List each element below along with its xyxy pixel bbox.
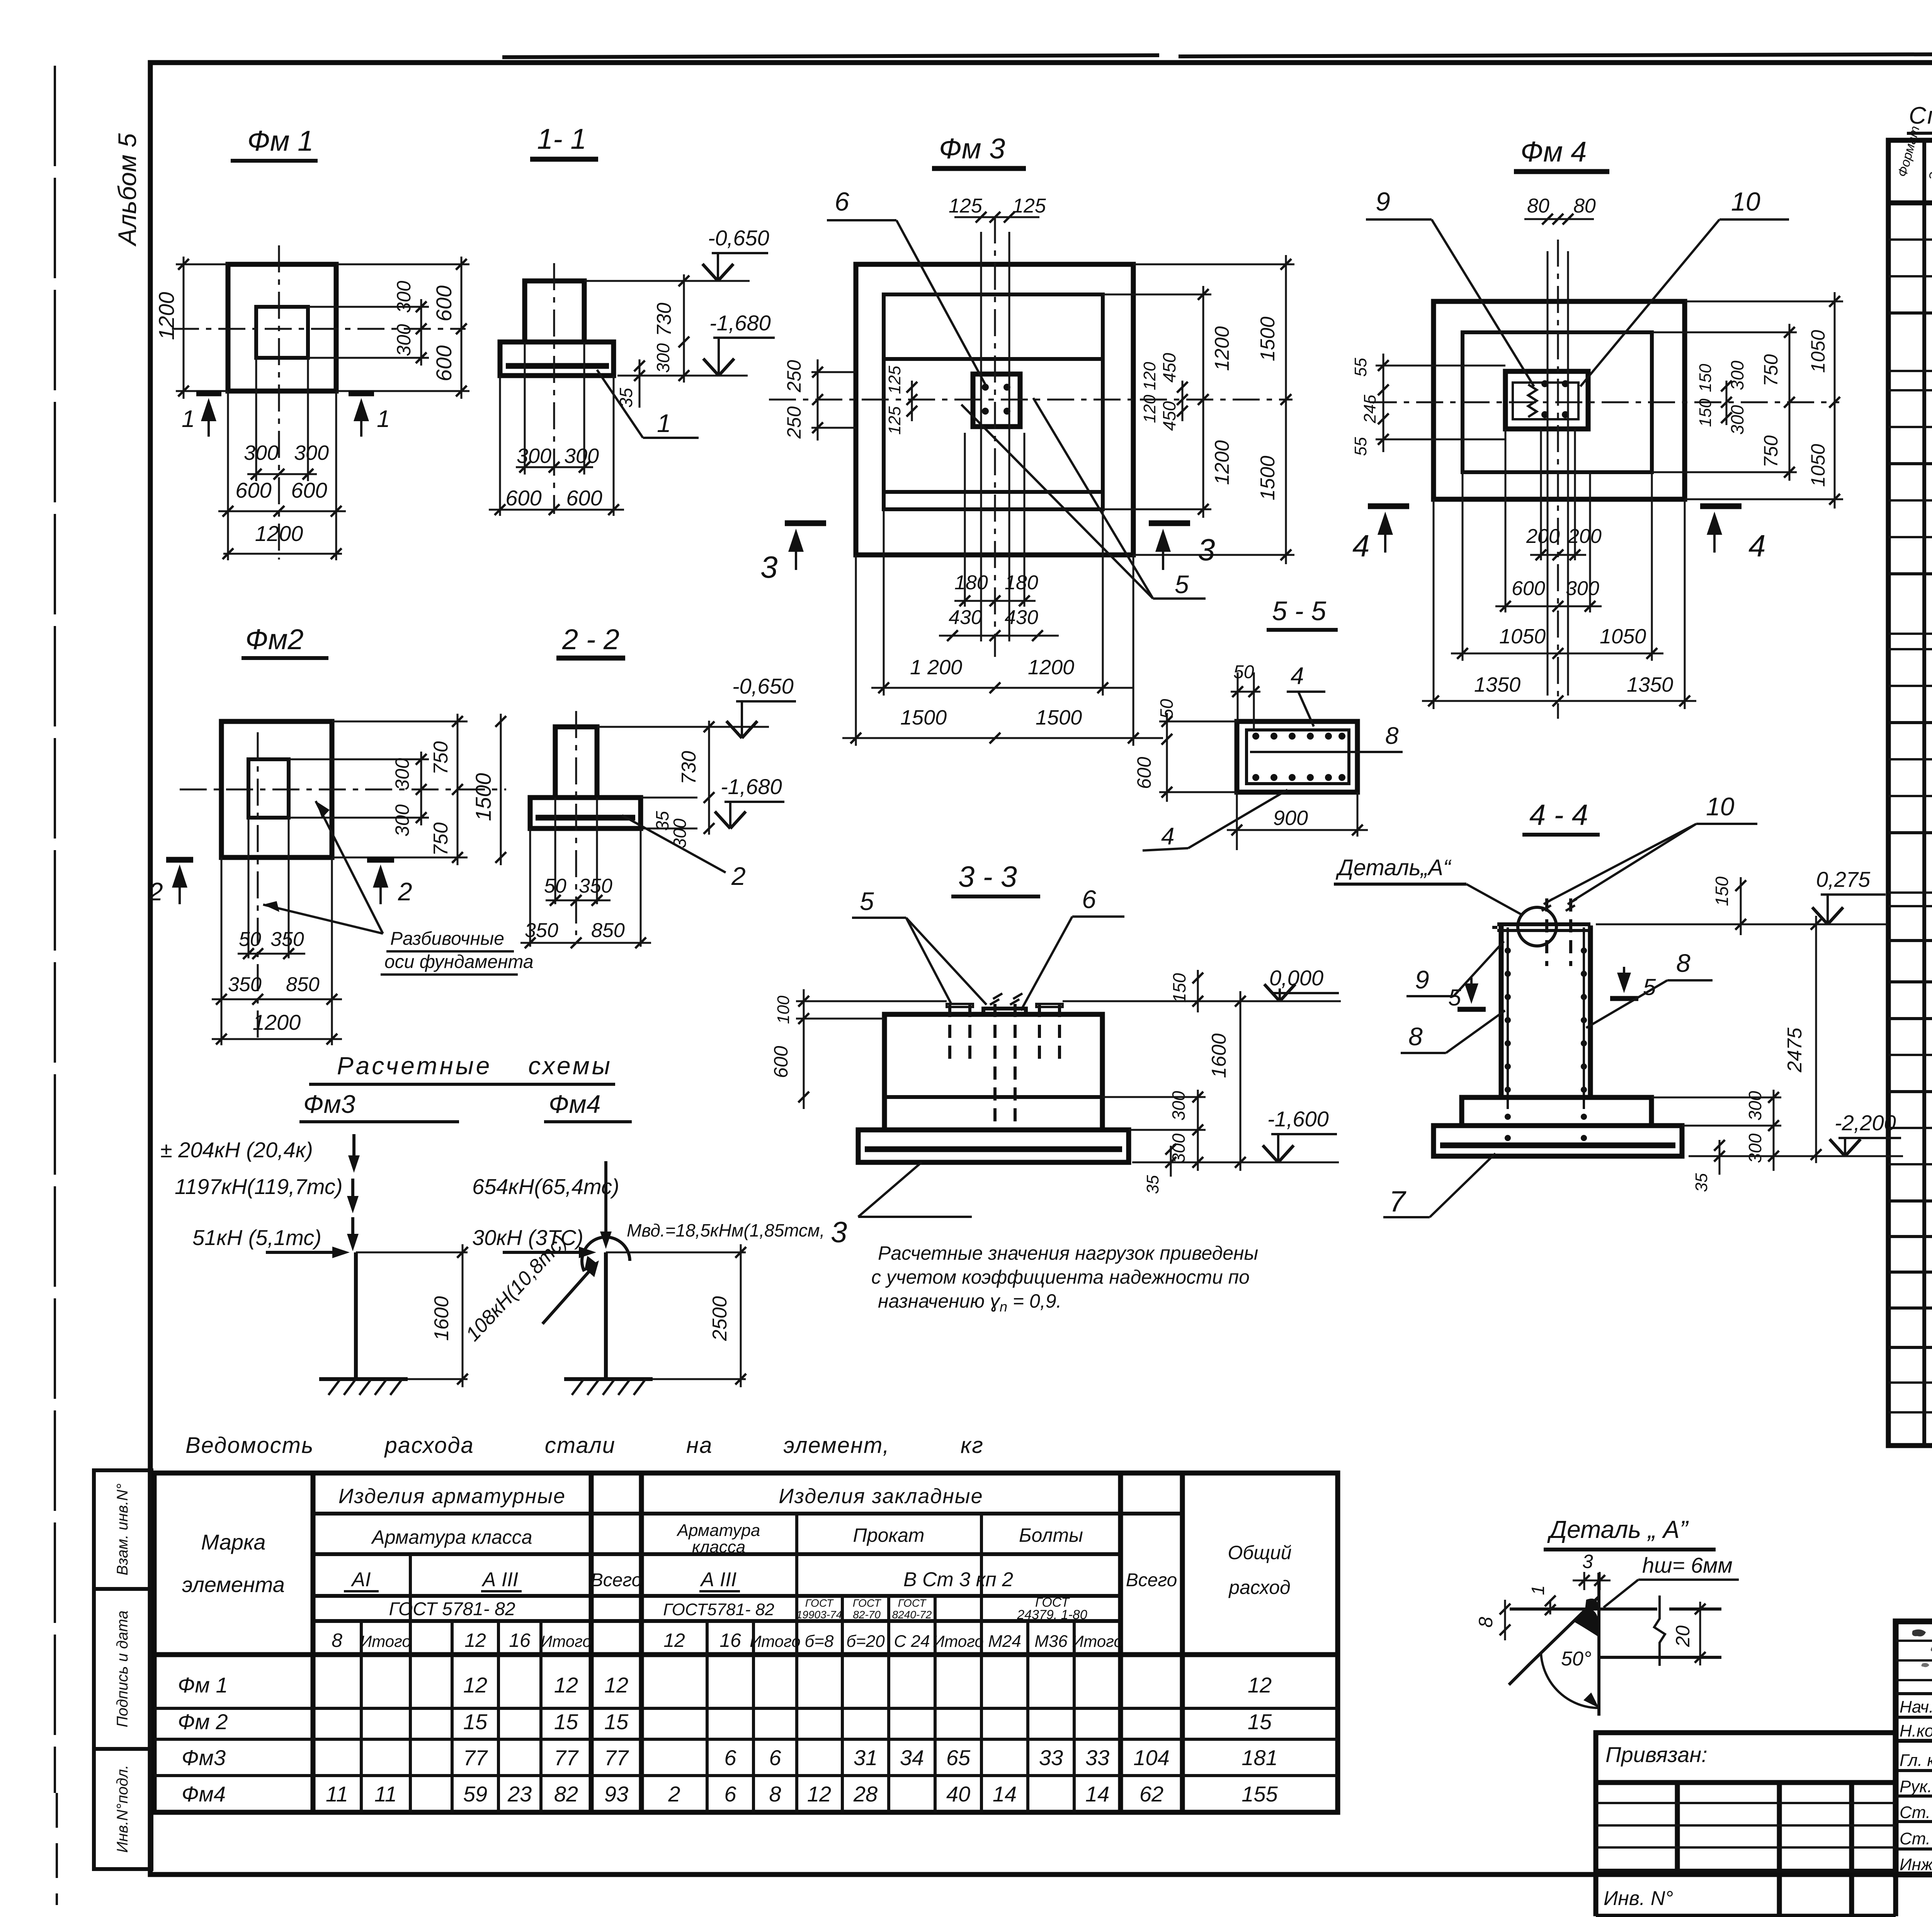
bottom dims 300 300: [524, 342, 526, 475]
svg-text:6: 6: [835, 187, 849, 216]
svg-text:600: 600: [566, 486, 602, 510]
dim 1200 left: [183, 257, 185, 399]
svg-text:Итого: Итого: [360, 1632, 411, 1650]
svg-text:2 - 2: 2 - 2: [562, 623, 619, 655]
dim 300 300 right inner: [308, 306, 429, 308]
svg-text:11: 11: [374, 1782, 397, 1806]
svg-text:14: 14: [993, 1782, 1017, 1806]
ground Фм4: [564, 1377, 653, 1381]
outer footing rect: [1434, 301, 1685, 499]
axis horizontal: [172, 328, 466, 330]
svg-text:3 - 3: 3 - 3: [958, 861, 1017, 893]
svg-text:1500: 1500: [1257, 456, 1279, 500]
svg-text:8: 8: [332, 1630, 342, 1651]
rebar dots right: [1581, 947, 1587, 954]
frame top scan doubling: [502, 55, 1159, 57]
mesh band lines: [884, 357, 1103, 361]
svg-text:1: 1: [377, 406, 390, 432]
svg-text:б=8: б=8: [805, 1632, 834, 1651]
bottom slab: [858, 1130, 1129, 1162]
svg-text:-0,650: -0,650: [708, 226, 769, 250]
svg-text:300: 300: [391, 804, 413, 837]
svg-text:1500: 1500: [1257, 316, 1279, 361]
svg-text:8: 8: [1408, 1022, 1423, 1051]
svg-text:150: 150: [1696, 364, 1715, 392]
note text: [871, 1242, 1258, 1315]
svg-text:Итого: Итого: [750, 1632, 801, 1650]
svg-text:31: 31: [854, 1745, 878, 1770]
svg-text:55: 55: [1351, 358, 1370, 377]
svg-text:77: 77: [554, 1745, 579, 1770]
column Фм4: [604, 1252, 608, 1379]
svg-text:180: 180: [1005, 572, 1038, 594]
slab mesh: [865, 1146, 1122, 1152]
bottom dims 350 850: [529, 828, 531, 947]
steel table grid: [154, 1473, 1338, 1812]
bottom slab: [1434, 1126, 1682, 1156]
svg-text:± 204кН (20,4к): ± 204кН (20,4к): [160, 1138, 313, 1162]
column: [525, 281, 584, 342]
svg-text:0,275: 0,275: [1816, 867, 1871, 891]
leader 2: [622, 815, 726, 873]
section mark 1 right: [349, 391, 374, 396]
svg-text:4: 4: [1161, 823, 1174, 850]
svg-text:4: 4: [1352, 529, 1370, 563]
svg-text:оси фундамента: оси фундамента: [384, 952, 534, 972]
svg-text:50°: 50°: [1561, 1648, 1592, 1670]
svg-text:600: 600: [1512, 577, 1545, 600]
svg-text:93: 93: [604, 1782, 628, 1806]
svg-text:А III: А III: [700, 1568, 736, 1591]
inner verticals: [360, 1621, 363, 1812]
svg-text:300: 300: [391, 758, 413, 790]
left margin boxes: [94, 1470, 151, 1869]
svg-text:19903-74: 19903-74: [796, 1609, 842, 1621]
anchor studs dashed: [950, 1004, 1060, 1126]
svg-text:Расчетные значения нагрузок: Расчетные значения нагрузок приведены: [878, 1242, 1258, 1264]
svg-text:14: 14: [1085, 1782, 1109, 1806]
svg-text:750: 750: [1760, 435, 1782, 468]
svg-text:1200: 1200: [255, 521, 303, 546]
outer footing rect: [856, 264, 1133, 555]
left dim 250 250: [811, 371, 856, 373]
mesh: [536, 815, 635, 821]
svg-text:ГОСТ 5781- 82: ГОСТ 5781- 82: [389, 1599, 515, 1619]
svg-text:750: 750: [430, 741, 452, 775]
svg-text:9: 9: [1376, 187, 1390, 216]
svg-text:16: 16: [509, 1630, 531, 1651]
svg-text:5 - 5: 5 - 5: [1272, 596, 1327, 626]
svg-text:250: 250: [783, 360, 805, 393]
svg-text:1: 1: [657, 409, 671, 437]
svg-text:Спецификация к фундаментам: Спецификация к фундаментам Фм 1 ÷ Фм 4: [1909, 102, 1932, 129]
svg-text:300: 300: [653, 343, 673, 373]
svg-text:15: 15: [1248, 1709, 1272, 1734]
svg-text:600: 600: [770, 1046, 792, 1078]
svg-text:Всего: Всего: [591, 1570, 642, 1590]
svg-text:8: 8: [769, 1782, 781, 1806]
svg-text:Болты: Болты: [1019, 1524, 1083, 1546]
svg-text:350: 350: [228, 973, 262, 996]
svg-text:181: 181: [1242, 1745, 1277, 1770]
svg-text:82-70: 82-70: [853, 1609, 881, 1621]
sheet outer trim line left: [54, 66, 56, 1793]
axes: [994, 216, 996, 657]
svg-text:300: 300: [1727, 361, 1747, 390]
svg-text:Расчетные схемы: Расчетные схемы: [337, 1052, 612, 1080]
footing: [530, 798, 641, 828]
outer footing rect: [221, 721, 332, 857]
bottom dim 600 300: [1505, 429, 1507, 612]
svg-text:11: 11: [326, 1782, 348, 1806]
svg-text:23: 23: [507, 1782, 532, 1806]
svg-text:15: 15: [604, 1709, 629, 1734]
svg-text:Фм 4: Фм 4: [1520, 136, 1587, 168]
section mark 2 left: [166, 857, 193, 863]
svg-text:5: 5: [1448, 985, 1461, 1010]
svg-text:125: 125: [885, 406, 904, 435]
svg-text:1050: 1050: [1807, 330, 1829, 373]
svg-text:0,000: 0,000: [1269, 966, 1323, 990]
svg-text:730: 730: [653, 303, 675, 336]
svg-text:1: 1: [182, 406, 195, 432]
svg-text:300: 300: [1745, 1133, 1765, 1163]
svg-text:12: 12: [663, 1630, 685, 1651]
svg-text:12: 12: [1248, 1673, 1272, 1697]
svg-text:2: 2: [668, 1782, 680, 1806]
column inner rebar lines: [1507, 927, 1509, 1109]
svg-text:12: 12: [463, 1673, 487, 1697]
moment arc: [582, 1237, 630, 1271]
svg-text:2: 2: [731, 862, 746, 890]
svg-text:730: 730: [678, 751, 700, 784]
break zigzag: [1654, 1596, 1665, 1666]
svg-text:5: 5: [860, 887, 874, 915]
anchor studs above plate: [1547, 898, 1571, 966]
svg-text:77: 77: [463, 1745, 488, 1770]
leader 1: [597, 370, 643, 438]
rebar dots top: [1252, 733, 1259, 740]
beam box: [1237, 721, 1357, 792]
svg-text:-0,650: -0,650: [732, 674, 794, 698]
svg-text:АI: АI: [350, 1568, 371, 1591]
svg-text:350: 350: [525, 919, 558, 942]
svg-text:12: 12: [554, 1673, 578, 1697]
section mark 4 right: [1700, 503, 1742, 509]
weld fillet: [1573, 1609, 1600, 1638]
svg-text:150: 150: [1696, 398, 1715, 427]
svg-text:9: 9: [1415, 965, 1429, 994]
dim 750 750: [332, 721, 468, 723]
anchor bolts dots: [982, 384, 989, 391]
axis: [553, 263, 555, 514]
svg-text:600: 600: [1133, 757, 1155, 789]
stud frames left right: [947, 1004, 973, 1007]
leader 7: [1430, 1153, 1495, 1217]
section mark 3 left: [785, 520, 826, 526]
svg-text:300: 300: [393, 324, 415, 356]
svg-text:600: 600: [505, 486, 541, 510]
svg-text:6: 6: [769, 1745, 781, 1770]
svg-text:Прокат: Прокат: [853, 1524, 925, 1546]
svg-text:2: 2: [398, 877, 412, 906]
svg-text:Взам. инв.N°: Взам. инв.N°: [114, 1483, 131, 1575]
zigzag MH16: [1528, 384, 1537, 417]
svg-text:150: 150: [1712, 876, 1732, 906]
bottom dim 1350 1350: [1433, 499, 1435, 709]
svg-text:450: 450: [1159, 353, 1179, 383]
svg-text:1500: 1500: [900, 706, 947, 729]
body block: [884, 1014, 1102, 1130]
svg-text:8: 8: [1676, 949, 1690, 977]
svg-text:850: 850: [591, 919, 625, 942]
bottom dims 180 180: [964, 433, 966, 607]
svg-text:1- 1: 1- 1: [537, 123, 587, 155]
svg-text:65: 65: [946, 1745, 971, 1770]
привязан box: [1596, 1733, 1896, 1916]
svg-text:Ст. инж.: Ст. инж.: [1900, 1803, 1932, 1822]
svg-text:1200: 1200: [1211, 440, 1233, 485]
svg-text:6: 6: [724, 1745, 736, 1770]
svg-text:62: 62: [1139, 1782, 1163, 1806]
svg-text:ГОСТ: ГОСТ: [853, 1597, 881, 1609]
svg-text:80: 80: [1527, 195, 1549, 217]
svg-text:300: 300: [564, 444, 599, 468]
svg-text:Формат: Формат: [1895, 124, 1923, 179]
svg-text:Мвд.=18,5кНм(1,85тсм,: Мвд.=18,5кНм(1,85тсм,: [627, 1220, 825, 1240]
svg-text:7: 7: [1389, 1185, 1406, 1218]
rebar dots left: [1505, 947, 1511, 954]
svg-text:Изделия арматурные: Изделия арматурные: [338, 1485, 566, 1508]
dim 1200 1200 right: [1103, 294, 1211, 296]
left dims 100 600: [796, 1000, 947, 1002]
section mark 3 right: [1149, 520, 1190, 526]
svg-text:8: 8: [1385, 723, 1399, 749]
svg-text:2475: 2475: [1784, 1027, 1806, 1073]
svg-text:6: 6: [1082, 885, 1096, 913]
svg-text:350: 350: [579, 875, 612, 897]
bolt dots: [1541, 380, 1548, 387]
svg-text:50: 50: [239, 928, 261, 951]
svg-text:Деталь „ А”: Деталь „ А”: [1547, 1516, 1689, 1543]
svg-text:Ст. инж.: Ст. инж.: [1900, 1829, 1932, 1848]
svg-text:300: 300: [517, 444, 551, 468]
svg-text:1350: 1350: [1627, 673, 1673, 696]
svg-text:120: 120: [1140, 395, 1159, 423]
column square: [973, 374, 1020, 427]
svg-text:850: 850: [286, 973, 320, 996]
footing: [500, 342, 614, 376]
section mark 1 left: [196, 391, 221, 396]
column square: [256, 307, 308, 358]
svg-text:450: 450: [1159, 401, 1179, 431]
svg-text:расход: расход: [1228, 1577, 1290, 1598]
svg-text:300: 300: [393, 281, 415, 313]
plate lines: [1510, 1607, 1657, 1611]
svg-text:150: 150: [1169, 973, 1189, 1003]
title block signature grid: [1896, 1621, 1932, 1874]
margin box Подпись и дата: [94, 1589, 151, 1749]
svg-text:10: 10: [1706, 792, 1735, 821]
bottom dim 200 200: [1540, 429, 1542, 560]
axis: [575, 711, 577, 935]
svg-text:8240-72: 8240-72: [892, 1609, 932, 1621]
bottom dim 300 300: [255, 358, 257, 481]
svg-text:Подпись и дата: Подпись и дата: [114, 1611, 131, 1728]
svg-text:-1,680: -1,680: [721, 774, 782, 799]
title block: [1896, 1621, 1932, 1876]
svg-text:900: 900: [1273, 806, 1308, 830]
bottom dims 600 600: [499, 376, 501, 516]
slab mesh: [1440, 1143, 1675, 1148]
axes: [1557, 240, 1559, 719]
svg-text:Гл. констр: Гл. констр: [1900, 1751, 1932, 1770]
left dims 55 245 55: [1376, 365, 1505, 367]
svg-text:125: 125: [885, 366, 904, 394]
svg-text:12: 12: [604, 1673, 628, 1697]
leader разбивочные оси: [316, 801, 383, 934]
bottom dims 50 350: [554, 798, 556, 904]
inner step rect: [884, 294, 1103, 509]
top ref line: [597, 726, 769, 728]
bottom dims 1500 1500: [855, 555, 857, 746]
svg-text:35: 35: [1143, 1175, 1162, 1194]
detail circle: [1518, 907, 1556, 946]
svg-text:Итого: Итого: [933, 1632, 984, 1650]
svg-text:1500: 1500: [1036, 706, 1082, 729]
svg-text:33: 33: [1085, 1745, 1109, 1770]
svg-text:125: 125: [949, 195, 983, 217]
svg-text:1200: 1200: [1028, 656, 1074, 679]
svg-text:ГОСТ: ГОСТ: [805, 1597, 834, 1609]
spec left columns fine grid: [1888, 240, 1932, 1412]
svg-text:600: 600: [291, 478, 327, 502]
svg-text:Фм4: Фм4: [549, 1090, 600, 1118]
svg-text:Альбом 5: Альбом 5: [113, 133, 141, 247]
svg-text:С 24: С 24: [894, 1632, 930, 1651]
svg-text:4: 4: [1291, 663, 1304, 689]
bottom dims 1200 1200: [883, 509, 885, 696]
svg-text:50: 50: [1233, 662, 1254, 682]
leader 5: [961, 405, 1153, 599]
svg-text:Изделия закладные: Изделия закладные: [779, 1485, 983, 1508]
svg-text:80: 80: [1573, 195, 1596, 217]
svg-text:Всего: Всего: [1126, 1570, 1177, 1590]
svg-text:155: 155: [1242, 1782, 1278, 1806]
svg-text:hш= 6мм: hш= 6мм: [1642, 1553, 1733, 1577]
svg-text:10: 10: [1731, 187, 1760, 216]
svg-text:1197кН(119,7тс): 1197кН(119,7тс): [175, 1174, 343, 1199]
svg-text:50: 50: [544, 875, 566, 897]
svg-text:120: 120: [1140, 362, 1159, 390]
svg-text:3: 3: [760, 550, 778, 584]
svg-text:750: 750: [1760, 354, 1782, 386]
svg-text:35: 35: [1692, 1173, 1711, 1192]
svg-text:1 200: 1 200: [910, 656, 962, 679]
svg-text:Фм3: Фм3: [182, 1745, 226, 1770]
svg-text:300: 300: [1745, 1091, 1765, 1121]
svg-text:Общий: Общий: [1228, 1542, 1291, 1563]
svg-text:20: 20: [1672, 1625, 1694, 1647]
svg-text:300: 300: [1727, 405, 1747, 435]
svg-text:ГОСТ: ГОСТ: [898, 1597, 927, 1609]
svg-text:Ведомость расхода ст: Ведомость расхода стали на элемент, кг: [185, 1433, 984, 1458]
bottom dim 50 350: [248, 818, 250, 958]
svg-text:654кН(65,4тс): 654кН(65,4тс): [472, 1174, 619, 1199]
svg-text:180: 180: [954, 572, 988, 594]
margin box Взам.инв.№: [94, 1470, 151, 1589]
dim 900: [1236, 792, 1238, 850]
bolt projection lines: [980, 232, 982, 641]
section mark 2 right: [367, 857, 394, 863]
spec row lines (full width): [1888, 240, 1932, 1412]
bottom dim 600 600: [227, 391, 229, 518]
svg-text:3: 3: [1198, 532, 1215, 567]
svg-text:Разбивочные: Разбивочные: [390, 929, 504, 949]
leader 3: [858, 1162, 922, 1217]
dim 750 750 right: [1652, 332, 1797, 333]
svg-text:2500: 2500: [709, 1296, 731, 1341]
svg-text:250: 250: [783, 406, 805, 439]
svg-text:82: 82: [554, 1782, 578, 1806]
dim 1500 1500 right: [1133, 264, 1294, 265]
svg-text:Фм 3: Фм 3: [939, 133, 1005, 165]
section mark 4 left: [1368, 503, 1409, 509]
steel table data: [178, 1673, 1278, 1806]
svg-text:назначению ɣn = 0,9.: назначению ɣn = 0,9.: [878, 1290, 1061, 1315]
dim 1500: [500, 714, 502, 865]
svg-text:Фм3: Фм3: [303, 1090, 355, 1118]
svg-text:33: 33: [1039, 1745, 1063, 1770]
svg-text:600: 600: [432, 345, 456, 381]
svg-text:430: 430: [949, 606, 982, 629]
svg-text:Фм2: Фм2: [245, 623, 304, 655]
svg-text:Нач. отд: Нач. отд: [1900, 1698, 1932, 1716]
mesh heavy line: [506, 363, 609, 369]
axes: [257, 732, 259, 1043]
svg-text:16: 16: [719, 1630, 741, 1651]
svg-text:Инв. N°: Инв. N°: [1604, 1887, 1673, 1910]
diagonal member: [1530, 1597, 1599, 1664]
svg-text:2: 2: [148, 877, 163, 906]
svg-text:200: 200: [1568, 525, 1602, 548]
svg-text:-1,600: -1,600: [1267, 1107, 1329, 1131]
svg-text:12: 12: [464, 1630, 486, 1651]
svg-text:34: 34: [900, 1745, 924, 1770]
svg-text:1200: 1200: [154, 292, 179, 340]
svg-text:Арматура класса: Арматура класса: [371, 1526, 532, 1548]
svg-text:77: 77: [604, 1745, 629, 1770]
svg-text:350: 350: [270, 928, 304, 951]
svg-text:Фм4: Фм4: [182, 1782, 226, 1806]
column rect: [1505, 371, 1588, 429]
svg-text:Марка: Марка: [201, 1530, 265, 1554]
outer footing square: [228, 264, 336, 391]
svg-text:1600: 1600: [1208, 1033, 1230, 1078]
svg-text:А III: А III: [481, 1568, 518, 1591]
svg-text:Н.контр.: Н.контр.: [1900, 1721, 1932, 1740]
svg-text:В Ст 3 кп 2: В Ст 3 кп 2: [903, 1568, 1013, 1591]
svg-text:300: 300: [1566, 577, 1599, 600]
svg-text:1050: 1050: [1499, 625, 1546, 648]
specification table grid: [1888, 124, 1932, 1446]
svg-text:1050: 1050: [1600, 625, 1646, 648]
dim 300 300 right: [289, 759, 429, 760]
svg-text:750: 750: [430, 822, 452, 856]
column Фм3: [354, 1252, 358, 1379]
stud top cross marks: [990, 993, 1002, 1005]
svg-text:1500: 1500: [471, 773, 495, 821]
